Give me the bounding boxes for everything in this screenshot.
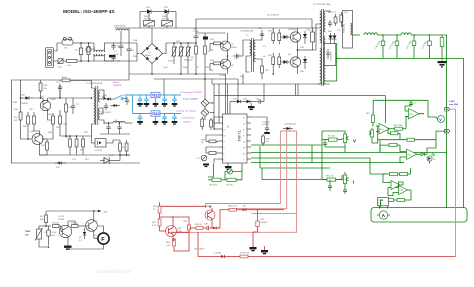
thermistor THR2 [25,226,43,246]
svg-text:TL494: TL494 [237,130,242,142]
resistor R40 startup [14,105,22,128]
resistor R20 [262,134,271,146]
wire thermistor bottom [39,246,49,248]
svg-text:4.7K: 4.7K [166,245,171,247]
wire outline left [12,80,66,163]
wire Q40 emitter chain [48,113,54,120]
pot VR5 vertical [340,172,349,188]
resistor R6 v [40,211,48,226]
green feedback loop top [373,99,428,101]
wire Q3 collector top rail [297,28,299,31]
IC pins right [243,117,251,162]
wire top bus y28 [115,27,210,29]
resistor R26 v [210,118,213,130]
resistor R12 [261,66,270,79]
wire drop x164 from bus [163,79,165,95]
svg-text:Q1 D2: Q1 D2 [58,216,65,218]
transistor Q40 [40,96,57,113]
green resistor R24 [225,178,242,186]
svg-text:R7 10K: R7 10K [328,136,335,138]
green wires current amp [400,145,403,151]
svg-text:SK2 5A: SK2 5A [162,18,170,21]
svg-text:C15 1.0: C15 1.0 [306,30,314,32]
resistor R69 h [394,125,407,130]
resistor R1 discharge [86,43,95,61]
ground output [438,58,447,68]
wire base drops [210,44,213,51]
cyan cap C26b lower left [138,114,142,122]
resistor R49 [65,98,74,118]
svg-text:Cap1: Cap1 [163,67,169,69]
capacitor CX1 [75,43,83,61]
svg-text:400V 560CF: 400V 560CF [114,26,126,28]
wire gnd row y134 [100,133,130,135]
diode D16 [283,124,297,131]
wire Q1f emitter gnd [67,240,69,246]
resistor R3 [191,43,198,74]
svg-text:R58 0.1R: R58 0.1R [228,206,237,208]
rail +12V [46,210,108,214]
resistor R64 red v [166,238,176,249]
cyan cap C29 [172,95,176,103]
capacitor C14 [258,28,264,35]
wire red vert from block [197,232,199,256]
ground bar c26b [137,121,143,125]
fan motor M [94,229,109,247]
op-amp U4:2 [376,124,394,134]
capacitor CY2 [111,57,121,63]
svg-text:22uF: 22uF [52,232,57,234]
svg-text:L13 10uF50v: L13 10uF50v [267,15,280,17]
svg-text:da pin 4 (4065): da pin 4 (4065) [183,99,198,101]
green cap C36 [343,188,347,194]
wire aux row y98 [60,97,92,99]
bus y79 [154,78,238,80]
svg-text:T3 7955/05-H07B: T3 7955/05-H07B [86,83,103,85]
red wires block [159,205,161,207]
rectifier diode D21 [333,33,337,44]
polarized cap mark C11 [203,33,208,43]
ground bar c28b [162,121,168,125]
svg-text:+12V: +12V [103,212,109,214]
svg-text:schematic ps: schematic ps [96,269,131,275]
svg-text:P10D-KEL: P10D-KEL [344,22,346,33]
LED D41 [427,153,437,164]
wire green bus E y168 [260,167,330,169]
ammeter A [377,211,390,219]
driver transformer T2 [240,31,256,73]
resistor R4p [204,43,211,79]
resistor R53 [119,140,128,161]
svg-text:Q7B: Q7B [177,228,182,230]
wire top feed from bulk [65,74,129,80]
cyan cap C27 [144,95,148,103]
svg-text:R5 560: R5 560 [71,223,79,225]
resistor R8 base Q2 [210,62,223,65]
cyan wire switch to 7812 rail [123,95,133,99]
diodes D5 zener [79,228,86,242]
resistor R43 [33,112,36,128]
svg-text:Amb?: Amb? [62,76,68,79]
transistor Q3 [288,29,301,44]
wire snubber top y19 [196,19,312,33]
green wires temp block [383,174,388,183]
resistor R69b h [388,129,400,135]
wire AC live top [54,43,63,51]
wire T2 sec bottom [256,59,263,66]
wire T2 primary bottom [246,56,250,72]
wire aux mid row y136 [66,135,92,137]
green wire L5 to right [411,34,446,36]
ground bar c29 [172,103,178,107]
green wire sec to filter [335,44,338,81]
capacitor C39 red [204,224,211,231]
green wire output node [353,34,361,36]
resistor R65 red h [228,253,254,258]
wire IC gnd [227,163,229,166]
snubber R C top [328,12,343,27]
red bottom rail components: diode D43 [194,249,228,259]
green wires I cluster [321,145,323,180]
resistor R44 [48,113,55,130]
svg-text:1.0/50V: 1.0/50V [262,124,270,126]
capacitor C38 red [183,219,191,235]
svg-text:201 (140?): 201 (140?) [194,249,204,251]
svg-text:68K: 68K [40,219,44,221]
transistor Q1 [221,41,238,51]
wire fan bottom return [68,247,104,249]
wire Q1f collector [68,221,75,226]
green feedback network below IC [208,164,214,178]
svg-text:C3457: C3457 [50,99,57,101]
ground bar left IC [203,164,209,168]
bridge B2 [201,99,209,107]
wire input live to bridge [120,42,137,44]
svg-text:+CX02A: +CX02A [213,252,221,255]
capacitor C34 green [323,140,327,147]
wire green bus F y179.5 [262,175,342,180]
resistor R72 h [383,199,396,202]
node dots [80,42,82,44]
green bottom bus y58 [337,57,464,59]
green wire L4 to L5 [378,34,401,36]
svg-text:V: V [439,117,442,122]
svg-text:1W: 1W [14,120,17,122]
svg-text:Power: Power [113,81,119,84]
resistor R74 h [400,173,411,176]
wire AC neutral bottom [54,60,58,62]
aux transformer T3 [86,83,103,125]
wire T2 sec top [256,34,263,40]
svg-text:Ther: Ther [58,66,63,69]
transistor Q8 red [204,205,215,222]
capacitor C24 [106,122,110,134]
snubber box secondary [324,44,336,66]
diode D42 red [211,227,220,230]
capacitor C25 [117,122,121,134]
wire PD rail down right [175,12,177,29]
svg-text:C8 2A: C8 2A [219,74,225,77]
wire fan top [94,234,98,239]
wire green bus C y158 [251,158,370,168]
green cap C35 [328,183,332,191]
capacitor C1 bulk [114,31,124,56]
wire node to T1 winding [313,24,320,50]
svg-text:+12V da Fan): +12V da Fan) [181,118,195,120]
cyan input cap C26 [138,95,142,103]
connector J1 AC inlet [46,48,54,68]
svg-text:0-26V: 0-26V [449,101,455,103]
resistor R5 h [71,223,83,228]
wire pink sense 3 [170,131,297,232]
ground bar reg2 [153,116,159,124]
wire drops from top section [237,79,239,102]
resistor R45 [56,110,62,130]
resistor R4 h [52,223,61,228]
svg-text:BR1 L4?: BR1 L4? [328,12,337,14]
resistor R50 [65,136,72,155]
wire pin stubs left connections [214,117,219,130]
wire vertical x219 [218,84,220,123]
svg-text:THR2: THR2 [25,231,31,233]
green trimmer VR3 [225,169,236,174]
svg-text:MODEL: ISO-450PP 4S: MODEL: ISO-450PP 4S [63,9,115,15]
resistor R51 [75,136,78,155]
wire feed drops to IC top [225,74,227,114]
wire aux bottom y163 [43,162,140,164]
wire bridge right [163,43,182,54]
wire T1 primary bottom [318,83,320,85]
svg-text:+12V da Vcc mater): +12V da Vcc mater) [176,110,196,113]
wire pin12 to C12 [251,117,267,126]
transistor Q7 red [166,224,183,238]
wire drive drop 2 [297,84,299,96]
resistor R58 shunt h [220,206,240,212]
wire Q3 emitter / Q4 collector node [297,44,299,56]
wire y43 to x196 [181,42,196,44]
red rail R60 top [160,205,206,207]
wire bridge top [151,28,153,44]
wire pink output sense vertical [448,109,455,256]
resistor R14 [278,29,281,44]
node dots primary [173,42,175,44]
resistor R67 v [366,112,375,126]
bridge rectifier D1 [142,44,163,64]
op-amp U3:1 [388,181,403,190]
regulator U6 7812 [151,111,160,116]
wire Q1 collector up [227,33,229,41]
wire green bus B y152.5 [251,152,447,154]
transistor Q2 [221,59,235,69]
svg-text:I: I [353,180,354,185]
op-amp U2:1 [405,109,424,119]
resistor R25 v [201,117,204,131]
capacitor C15 dc block [306,28,315,50]
ground bar under IC [225,166,232,170]
trimmer VR2 [196,155,207,161]
resistor R41 [39,80,48,98]
transistor Q2f [83,218,99,234]
resistor R16 [278,53,281,68]
wire op to terminal row [379,140,381,153]
svg-text:R2A: R2A [133,39,138,42]
cyan cap C28b [162,114,166,122]
capacitor C12 right of IC [262,122,270,135]
resistor R42 [23,112,30,134]
green inductor L4 [364,33,378,35]
diode D40 green [421,153,427,156]
resistor R63 red h [193,224,205,229]
capacitor C21 [71,98,80,114]
resistor R68 h [385,144,400,147]
resistor R13 [268,28,275,44]
svg-text:D1438: D1438 [58,219,65,221]
bridge B3 [201,109,209,117]
svg-text:D16 1N4148: D16 1N4148 [284,124,297,126]
svg-text:R4 10K: R4 10K [52,223,60,225]
svg-text:SK1 5A: SK1 5A [144,18,152,21]
capacitor C20 [56,82,62,92]
ground bar diode row [248,103,255,110]
resistor R52 [80,136,85,155]
green cap C33 [422,35,432,58]
wire aux bottom bus y155 [40,154,131,156]
terminal + [445,107,450,111]
ground bar red block [250,247,257,251]
ground bar c29b [172,121,178,125]
diode D15 [241,99,257,104]
IC pins left [219,117,227,162]
wire shunt into box [380,204,382,208]
wires choke to CY caps [104,42,120,44]
green inductor L5 [401,33,411,35]
ground bar c26 [137,103,143,107]
ground bar under diode [261,246,268,254]
node dots green [382,34,384,36]
regulator U5 7812 [151,92,160,97]
green output vertical V- [463,58,465,208]
green resistor R23 [208,178,225,186]
resistor R73 h [396,199,408,202]
svg-text:T1 YX35-KEL?404: T1 YX35-KEL?404 [313,4,331,6]
green wires fb [224,172,226,180]
svg-text:TL431: TL431 [108,155,115,157]
wire Q1 emitter to Q2 [227,51,229,59]
rectifier diode D20 [328,31,333,44]
wire bus y84 [212,83,330,85]
wire green bus D y162.5 [251,162,404,164]
wire green bus A y145 [251,131,322,145]
wire T2 primary top [243,40,250,56]
thermistor TH3 green [378,198,389,209]
green wires V cluster [322,130,345,132]
wire net mid aux [21,97,23,99]
resistor R15 [268,53,275,68]
wire drive drop 1 [295,84,297,96]
svg-text:50V: 50V [52,235,56,237]
wire bridge bottom to bus [151,64,153,75]
capacitor C23 [100,103,112,114]
row of diodes above IC: diode D14 [230,99,241,104]
svg-text:Q3 13007: Q3 13007 [288,29,298,31]
capacitor C16 [256,99,264,104]
diode PD2 [158,7,176,18]
wire green drop E [259,146,261,168]
svg-text:Y22S-KEL404: Y22S-KEL404 [240,31,254,33]
diode D31 [100,95,113,101]
cyan cap C28 [162,95,166,103]
resistor R54 [125,140,128,156]
resistor R31 (green h) [322,176,340,182]
diode D14b [303,56,307,69]
transistor Q4 [288,54,301,69]
capacitor C10 [193,29,199,44]
wire Q41 base network [43,138,47,140]
green wire pin14 ref [214,95,386,97]
resistor R22 left of IC [206,152,219,155]
wire relay stubs [148,12,150,21]
diode D11 [281,35,290,39]
capacitor C1f [44,226,57,246]
relay SK1 [144,18,155,27]
resistor R47h [62,76,70,82]
svg-text:IC2 817: IC2 817 [95,150,103,152]
wire green link x312 [311,145,313,163]
cyan wire reg2 rail [133,113,152,115]
ground bar c27 [144,103,150,107]
capacitor C40 red [256,214,268,232]
terminal - [445,129,450,133]
capacitor C37 fb [409,101,417,105]
svg-text:13007: 13007 [231,47,238,49]
resistor R30 (green h) [322,136,341,142]
svg-text:R5B: R5B [205,67,210,69]
svg-text:1uF50V: 1uF50V [260,222,268,224]
svg-text:4.7K: 4.7K [152,225,157,227]
wire pink sense 1 [206,131,281,208]
wire Q2 emitter down [227,69,229,74]
wire red bottom long [254,256,456,258]
ground bar c28 [162,103,168,107]
op-amp U3:2 [396,186,412,195]
svg-text:C2200/35: C2200/35 [331,51,333,61]
line filter LF1 [62,37,73,49]
green cap C30 [375,35,385,58]
ground bar reg1 [153,98,159,107]
wire pink sense 2 [235,131,287,209]
svg-text:R8 1.5K: R8 1.5K [326,176,334,178]
svg-text:R63 1K: R63 1K [195,224,203,226]
diode D13 [303,31,307,44]
cyan switch Power ONOFF [113,81,123,99]
cyan vertical link [132,95,134,114]
op-amp U4:1 [403,149,421,159]
wire fb row y139.7 [378,139,407,141]
svg-text:10K Ohm: 10K Ohm [209,185,218,187]
resistor R60 red v [153,202,161,217]
common mode choke LF2 [94,43,104,61]
green bleeder resistor R70 [440,35,444,58]
ground bar mid [109,55,116,58]
green wires to meter [436,117,438,119]
wire T3 sec lower [100,108,103,114]
transistor Q41 [30,131,43,147]
NTC thermistor RT2 [179,43,185,74]
svg-text:C3C: C3C [29,109,34,111]
voltmeter V [438,116,445,123]
wire D row to IC pin [229,102,231,115]
svg-text:S10K250: S10K250 [184,60,193,62]
